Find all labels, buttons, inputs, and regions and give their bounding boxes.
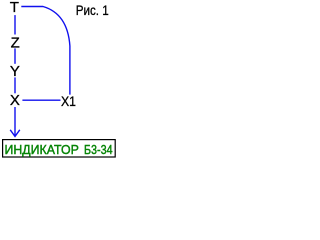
- svg-text:X: X: [10, 92, 20, 109]
- wire T to Z: [14, 15, 16, 34]
- svg-text:X1: X1: [61, 93, 76, 109]
- wire Z to Y: [14, 48, 16, 63]
- indicator box Б3-34: [3, 140, 116, 157]
- svg-text:ИНДИКАТОР: ИНДИКАТОР: [5, 142, 79, 157]
- svg-text:Y: Y: [10, 63, 20, 80]
- wire arrow from X to indicator: [10, 107, 20, 136]
- wire Y to X: [14, 77, 16, 93]
- svg-text:Рис. 1: Рис. 1: [76, 2, 109, 18]
- wire X to X1 (horizontal): [22, 99, 60, 101]
- svg-text:Б3-34: Б3-34: [84, 142, 113, 157]
- svg-text:T: T: [10, 0, 19, 16]
- wire T to X1 (top horizontal, curve, right vertical): [21, 7, 70, 95]
